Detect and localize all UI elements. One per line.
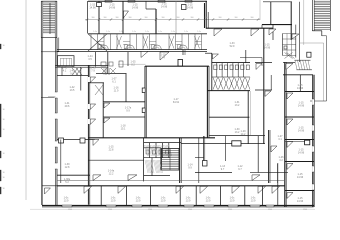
svg-text:13.2: 13.2 — [235, 104, 240, 107]
svg-text:13.9: 13.9 — [64, 200, 69, 203]
svg-text:30: 30 — [3, 177, 5, 179]
svg-text:1-1x: 1-1x — [184, 31, 188, 33]
svg-text:300: 300 — [235, 17, 238, 19]
svg-text:30: 30 — [3, 119, 5, 121]
svg-text:13.9: 13.9 — [161, 200, 166, 203]
svg-text:14.96: 14.96 — [161, 6, 168, 9]
svg-text:1200: 1200 — [68, 209, 72, 210]
svg-text:14.96: 14.96 — [298, 152, 305, 155]
svg-text:14.96: 14.96 — [297, 87, 304, 90]
svg-text:9.7: 9.7 — [238, 168, 242, 171]
svg-text:52.9: 52.9 — [230, 45, 235, 48]
svg-text:1200: 1200 — [148, 209, 152, 210]
svg-text:13.9: 13.9 — [230, 200, 235, 203]
svg-text:7.9: 7.9 — [91, 70, 95, 73]
svg-text:8.2: 8.2 — [131, 64, 135, 67]
svg-text:13.5: 13.5 — [70, 89, 75, 92]
svg-text:300: 300 — [129, 17, 132, 19]
svg-text:30: 30 — [3, 188, 5, 190]
svg-text:9.6: 9.6 — [70, 73, 74, 76]
svg-text:12.8: 12.8 — [65, 166, 70, 169]
svg-text:300: 300 — [116, 17, 119, 19]
svg-text:9.7: 9.7 — [221, 168, 225, 171]
svg-text:300: 300 — [145, 17, 148, 19]
svg-text:14.96: 14.96 — [298, 105, 305, 108]
svg-text:29.6: 29.6 — [65, 105, 70, 108]
svg-text:9.9: 9.9 — [126, 110, 130, 113]
svg-text:7.4: 7.4 — [161, 57, 165, 60]
svg-text:1200: 1200 — [268, 209, 272, 210]
svg-text:300: 300 — [92, 17, 95, 19]
svg-text:300: 300 — [104, 17, 107, 19]
svg-text:30: 30 — [3, 129, 5, 131]
svg-text:300: 300 — [219, 17, 222, 19]
svg-text:6.1: 6.1 — [112, 81, 116, 84]
svg-text:13.9: 13.9 — [136, 200, 141, 203]
svg-text:14.96: 14.96 — [89, 7, 96, 10]
svg-text:13.9: 13.9 — [206, 200, 211, 203]
svg-text:30: 30 — [3, 153, 5, 155]
svg-text:11.9: 11.9 — [114, 90, 119, 93]
svg-text:4.1: 4.1 — [63, 70, 67, 73]
svg-text:3.2: 3.2 — [279, 159, 283, 162]
svg-text:14.96: 14.96 — [264, 47, 271, 50]
svg-text:22.8: 22.8 — [109, 149, 114, 152]
svg-text:30: 30 — [3, 172, 5, 174]
svg-text:13.9: 13.9 — [111, 200, 116, 203]
svg-text:1-1x: 1-1x — [106, 31, 110, 33]
svg-text:1-1x: 1-1x — [132, 31, 136, 33]
svg-text:14.96: 14.96 — [298, 130, 305, 133]
svg-text:1-1x: 1-1x — [93, 31, 97, 33]
svg-text:13.2: 13.2 — [235, 131, 240, 134]
svg-text:1-1x: 1-1x — [119, 31, 123, 33]
svg-text:1200: 1200 — [228, 209, 232, 210]
svg-text:1200: 1200 — [303, 209, 307, 210]
svg-text:1200: 1200 — [108, 209, 112, 210]
svg-text:1-1x: 1-1x — [158, 31, 162, 33]
svg-text:14.96: 14.96 — [297, 176, 304, 179]
svg-text:300: 300 — [251, 17, 254, 19]
svg-text:5.2: 5.2 — [65, 181, 69, 184]
svg-text:1-1x: 1-1x — [145, 31, 149, 33]
svg-text:30: 30 — [3, 109, 5, 111]
svg-text:3.1: 3.1 — [278, 138, 282, 141]
svg-text:300: 300 — [191, 17, 194, 19]
svg-text:300: 300 — [162, 17, 165, 19]
svg-text:14.96: 14.96 — [297, 200, 304, 203]
svg-text:15.1: 15.1 — [121, 128, 126, 131]
svg-text:9.9: 9.9 — [188, 167, 192, 170]
svg-text:14.96: 14.96 — [187, 7, 194, 10]
svg-text:30: 30 — [3, 45, 5, 47]
svg-text:300: 300 — [177, 17, 180, 19]
svg-text:14.96: 14.96 — [109, 7, 116, 10]
svg-text:13.9: 13.9 — [251, 200, 256, 203]
svg-text:3.5: 3.5 — [88, 58, 92, 61]
svg-text:300: 300 — [205, 17, 208, 19]
svg-text:64.91: 64.91 — [173, 101, 180, 104]
svg-text:14.2: 14.2 — [241, 133, 246, 136]
svg-text:14.96: 14.96 — [132, 7, 139, 10]
svg-text:1200: 1200 — [188, 209, 192, 210]
svg-text:13.9: 13.9 — [186, 200, 191, 203]
svg-text:1-1x: 1-1x — [197, 31, 201, 33]
svg-text:12.2: 12.2 — [109, 173, 114, 176]
svg-text:1-1x: 1-1x — [171, 31, 175, 33]
